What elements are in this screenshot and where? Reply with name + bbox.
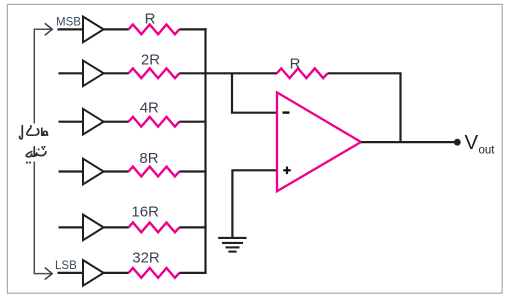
Arabic label (binary input) word 1 "madkhal" (20, 126, 48, 139)
svg-text:32R: 32R (132, 249, 160, 266)
wire (58, 28, 84, 30)
buffer B6 (83, 260, 104, 286)
svg-text:4R: 4R (140, 100, 159, 117)
wire (179, 121, 206, 123)
resistor 2R (129, 68, 180, 78)
binary input bracket (upper segment) (34, 29, 51, 123)
svg-text:R: R (290, 56, 301, 73)
svg-text:MSB: MSB (56, 16, 81, 28)
resistor 8R (129, 167, 180, 177)
svg-text:V: V (465, 131, 479, 154)
non-inverting input wire (232, 170, 277, 238)
buffer B3 (83, 109, 104, 135)
summing bus (204, 28, 206, 274)
wire (59, 72, 84, 74)
wire (59, 170, 84, 172)
wire (179, 272, 206, 274)
buffer B4 (83, 159, 104, 185)
wire (179, 28, 206, 30)
wire (59, 226, 84, 228)
wire (104, 272, 129, 274)
ground (218, 238, 246, 252)
wire to inverting node (179, 72, 277, 74)
op-amp U1 (277, 92, 361, 191)
wire (104, 28, 129, 30)
svg-text:R: R (145, 10, 156, 27)
wire (104, 170, 129, 172)
svg-text:2R: 2R (141, 51, 160, 68)
resistor 16R (129, 223, 180, 233)
wire to inverting input (drop) (232, 73, 277, 112)
arrow to MSB (45, 23, 52, 35)
feedback resistor R (277, 68, 328, 78)
svg-text:out: out (479, 145, 496, 157)
binary input bracket (lower segment) (34, 162, 51, 274)
wire (58, 272, 84, 274)
wire (179, 170, 206, 172)
wire (179, 226, 206, 228)
svg-text:LSB: LSB (55, 260, 77, 272)
output wire (361, 141, 457, 143)
Arabic label (binary input) word 2 "thunaiy" (26, 147, 46, 157)
minus sign (283, 111, 290, 113)
wire (104, 226, 129, 228)
svg-text:8R: 8R (139, 150, 158, 167)
output node dot (454, 139, 461, 146)
resistor R (MSB) (129, 25, 180, 35)
svg-text:16R: 16R (131, 203, 159, 220)
wire (104, 72, 129, 74)
plus sign (283, 167, 291, 175)
resistor 4R (129, 117, 180, 127)
wire (104, 121, 129, 123)
arrow to LSB (45, 268, 52, 280)
buffer B2 (83, 61, 104, 87)
buffer B1 (83, 17, 104, 43)
resistor 32R (129, 268, 180, 278)
wire (59, 121, 84, 123)
feedback wire (328, 73, 401, 142)
buffer B5 (83, 215, 104, 241)
